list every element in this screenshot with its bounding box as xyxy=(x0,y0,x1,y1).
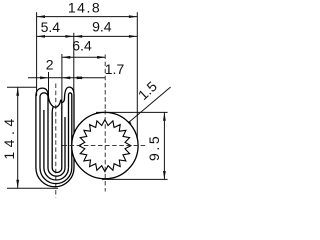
svg-text:2: 2 xyxy=(46,57,54,73)
dimension line 6.4 xyxy=(62,56,106,58)
cavity: left wall from lip bottom, bottom arc, right wall xyxy=(52,103,62,173)
profile outer wall: left arch + left wall + bottom arc + right wall xyxy=(36,87,74,187)
bulb horizontal centerline (dashed) xyxy=(63,145,147,147)
svg-text:14.8: 14.8 xyxy=(68,0,101,16)
svg-text:9.4: 9.4 xyxy=(92,18,112,34)
svg-text:14.4: 14.4 xyxy=(1,114,17,159)
dimension line 14.8 xyxy=(37,16,138,18)
arrowhead 6.4 left xyxy=(62,56,70,59)
arrowhead 2 left (outside pointing right) xyxy=(40,76,48,79)
arrowhead 9.5 bottom xyxy=(163,171,166,179)
bulb vertical centerline lower part (dashed) xyxy=(104,110,106,192)
layer line 4: left 48 down to arc, arc to right 65 xyxy=(48,97,65,176)
bulb outer circle xyxy=(72,112,138,178)
arrowhead 9.4 left xyxy=(74,35,82,38)
arrowhead 2 right (outside pointing left) xyxy=(62,76,70,79)
arrowhead 6.4 right xyxy=(97,56,105,59)
tick top 9.5 xyxy=(96,111,168,113)
svg-text:9.5: 9.5 xyxy=(146,134,162,161)
extension line middle (x=73.4) xyxy=(73,33,75,92)
leader line 1.5 xyxy=(124,87,171,127)
svg-text:6.4: 6.4 xyxy=(72,38,92,54)
extension line 2/6.4 shared (x=61.9) xyxy=(61,54,63,101)
tick bottom 14.4 xyxy=(7,187,58,189)
arrowhead 9.4 right xyxy=(129,35,137,38)
arrowhead 14.8 right xyxy=(129,15,137,18)
bulb zigzag sponge ring xyxy=(79,120,131,172)
extension line 2-left (x=48.5) xyxy=(48,72,50,96)
tick top 14.4 xyxy=(7,86,37,88)
arrowhead leader 1.5 xyxy=(124,121,132,127)
svg-text:1.7: 1.7 xyxy=(105,61,125,77)
metal core line (left 43.9, starts below cap) xyxy=(44,110,69,180)
arrowhead 9.5 top xyxy=(163,112,166,120)
extension line right (x=137.3) xyxy=(136,12,138,145)
svg-text:5.4: 5.4 xyxy=(41,19,61,35)
dimension line 5.4 / 9.4 xyxy=(37,35,138,37)
dimension line 14.4 (vertical left) xyxy=(17,87,19,188)
arrowhead 14.4 top xyxy=(16,87,19,95)
dimension line 2 / 1.7 xyxy=(28,77,106,79)
arrowhead 14.8 left xyxy=(37,15,45,18)
arrowhead 5.4 left xyxy=(37,35,45,38)
layer line 2 (left 40 - bottom - right 71.5) with top cap to 48 xyxy=(40,93,72,184)
arrowhead 1.7 left (inside pointing left) xyxy=(74,76,82,79)
arrowhead 5.4 right xyxy=(65,35,73,38)
arrowhead 14.4 bottom xyxy=(16,180,19,188)
tick bottom 9.5 xyxy=(102,178,168,180)
arrowhead 1.7 right (inside pointing right) xyxy=(77,76,85,79)
dimension line 9.5 (vertical right) xyxy=(163,112,165,179)
lip curve (outer, from left arch into cavity tip) xyxy=(48,95,62,107)
bulb vertical centerline (dashed, x=105.4) xyxy=(104,55,106,111)
extension line left (x=36.6) xyxy=(36,12,38,96)
U-channel centerline (dashed, x=55.3) xyxy=(55,84,57,198)
